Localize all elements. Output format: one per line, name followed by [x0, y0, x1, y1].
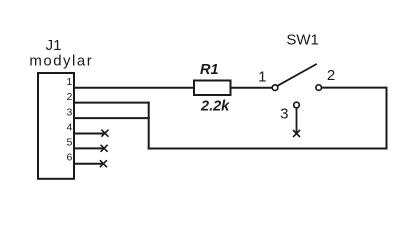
switch SW1 terminal 2 circle [316, 85, 322, 91]
svg-text:3: 3 [280, 105, 288, 122]
svg-text:2.2k: 2.2k [200, 98, 230, 114]
svg-text:2: 2 [327, 67, 335, 84]
wire switch terminal 2 to right vertical [322, 87, 388, 89]
switch SW1 terminal 1 circle [272, 85, 278, 91]
wire terminal 3 stub down [296, 108, 298, 134]
svg-text:5: 5 [67, 137, 73, 149]
wire pin3 to junction vertical [74, 117, 150, 119]
svg-text:2: 2 [67, 91, 73, 103]
wire vertical junction pins 2-3 down to bottom net [148, 102, 150, 150]
resistor R1 body [194, 81, 231, 96]
connector J1 body [38, 73, 74, 179]
svg-text:1: 1 [67, 76, 73, 88]
wire resistor R1 to switch terminal 1 [231, 87, 272, 89]
switch SW1 arm [278, 64, 317, 86]
svg-text:modylar: modylar [29, 52, 93, 69]
wire bottom net horizontal [148, 148, 388, 150]
svg-text:SW1: SW1 [286, 31, 319, 48]
wire pin5 stub [74, 147, 104, 149]
svg-text:3: 3 [67, 106, 73, 118]
no-connect X pin4 [101, 130, 108, 137]
svg-text:4: 4 [67, 121, 73, 133]
switch SW1 terminal 3 circle [294, 102, 300, 108]
svg-text:R1: R1 [200, 62, 219, 78]
wire pin1 to resistor R1 [74, 87, 194, 89]
wire pin6 stub [74, 163, 103, 165]
no-connect X pin5 [101, 145, 108, 152]
no-connect X switch terminal 3 [293, 130, 300, 137]
svg-text:1: 1 [258, 68, 266, 85]
no-connect X pin6 [100, 160, 107, 167]
wire right vertical up to switch terminal 2 [386, 88, 388, 150]
svg-text:6: 6 [67, 152, 73, 164]
wire pin4 stub [74, 133, 105, 135]
wire pin2 to junction vertical [74, 102, 150, 104]
